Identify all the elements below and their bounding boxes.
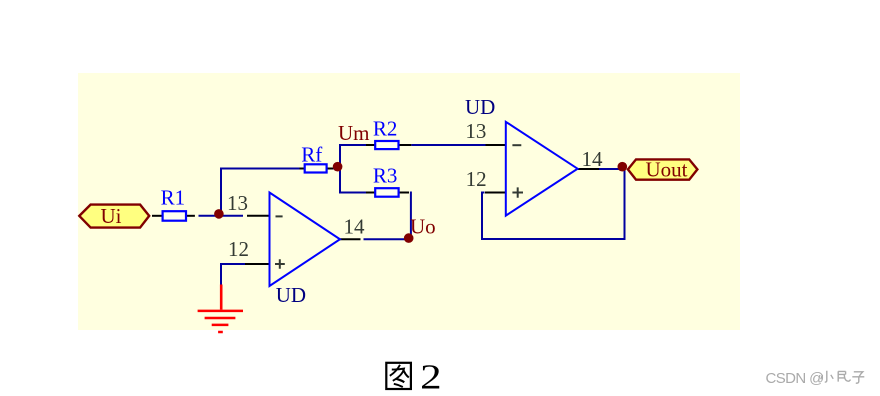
svg-text:2: 2 (420, 358, 442, 396)
svg-text:12: 12 (228, 237, 249, 261)
svg-text:UD: UD (465, 95, 495, 119)
svg-text:Um: Um (338, 121, 370, 145)
svg-text:14: 14 (344, 214, 366, 238)
svg-text:CSDN @: CSDN @ (766, 370, 824, 387)
svg-text:Uo: Uo (410, 215, 436, 239)
svg-text:Uout: Uout (646, 158, 688, 182)
svg-text:13: 13 (465, 119, 486, 143)
svg-text:R2: R2 (373, 116, 398, 140)
svg-text:R3: R3 (373, 163, 398, 187)
svg-text:13: 13 (227, 191, 248, 215)
svg-text:R1: R1 (161, 185, 186, 209)
svg-text:UD: UD (276, 283, 306, 307)
svg-text:12: 12 (466, 167, 487, 191)
svg-text:Ui: Ui (101, 204, 122, 228)
svg-text:Rf: Rf (301, 142, 322, 166)
svg-text:14: 14 (582, 147, 604, 171)
